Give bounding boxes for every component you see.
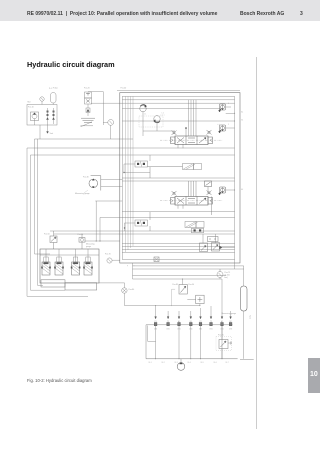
svg-text:1.1: 1.1 bbox=[144, 113, 146, 115]
svg-text:30.5: 30.5 bbox=[200, 362, 203, 364]
svg-text:gauge: gauge bbox=[86, 246, 91, 248]
svg-text:Tank: Tank bbox=[50, 133, 54, 135]
svg-text:bar): bar) bbox=[225, 277, 229, 279]
svg-text:Pos.50: Pos.50 bbox=[44, 234, 50, 236]
svg-text:30.3: 30.3 bbox=[174, 362, 177, 364]
svg-text:A2: A2 bbox=[241, 188, 243, 191]
svg-text:DN6: DN6 bbox=[229, 329, 232, 331]
svg-text:30.4: 30.4 bbox=[187, 362, 190, 364]
svg-text:1: 1 bbox=[228, 124, 229, 126]
svg-text:DN6: DN6 bbox=[166, 329, 169, 331]
svg-text:A1: A1 bbox=[241, 111, 243, 114]
svg-text:Pos.80: Pos.80 bbox=[129, 289, 135, 291]
svg-text:Pos.30: Pos.30 bbox=[83, 177, 89, 179]
svg-text:Tank: Tank bbox=[249, 315, 251, 319]
svg-text:T: T bbox=[134, 265, 135, 267]
svg-text:Mot: Mot bbox=[28, 101, 31, 104]
svg-text:Pos.90: Pos.90 bbox=[188, 284, 194, 286]
svg-text:Pos.10: Pos.10 bbox=[28, 107, 34, 109]
svg-text:DN6: DN6 bbox=[209, 329, 212, 331]
svg-text:30.2: 30.2 bbox=[161, 362, 164, 364]
svg-text:Pos.70: Pos.70 bbox=[105, 254, 111, 256]
svg-text:Pos.40: Pos.40 bbox=[121, 88, 127, 90]
svg-text:30.6: 30.6 bbox=[213, 362, 216, 364]
svg-text:1: 1 bbox=[228, 103, 229, 105]
svg-text:P: P bbox=[127, 265, 128, 267]
svg-text:p₀= 75 bar: p₀= 75 bar bbox=[49, 87, 58, 90]
svg-text:Pos.85: Pos.85 bbox=[172, 284, 178, 286]
svg-text:1.2: 1.2 bbox=[162, 113, 164, 115]
svg-text:Pos.20: Pos.20 bbox=[84, 88, 90, 90]
svg-text:30.1: 30.1 bbox=[148, 362, 151, 364]
svg-text:30.7: 30.7 bbox=[225, 362, 228, 364]
svg-text:Pos.95: Pos.95 bbox=[218, 335, 224, 337]
svg-text:Measuring gauge: Measuring gauge bbox=[222, 312, 237, 315]
svg-text:Measuring gauge: Measuring gauge bbox=[75, 192, 90, 195]
svg-text:Pos.55: Pos.55 bbox=[78, 234, 84, 236]
svg-text:B1: B1 bbox=[241, 119, 243, 121]
